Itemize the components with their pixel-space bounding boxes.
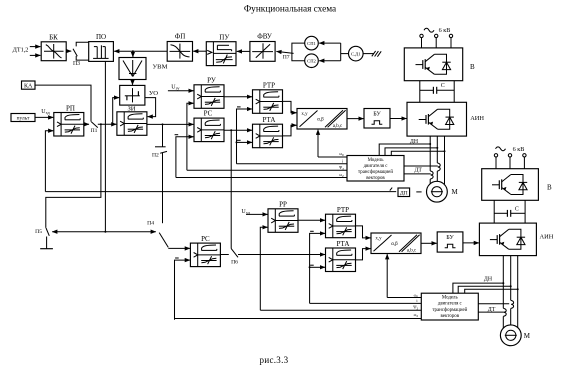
svg-text:УО: УО <box>149 90 158 97</box>
svg-text:М: М <box>524 332 531 340</box>
svg-text:ДТ: ДТ <box>488 307 496 313</box>
svg-text:Uзд: Uзд <box>41 109 50 115</box>
svg-text:ДТ1,2: ДТ1,2 <box>13 47 29 54</box>
svg-text:a,b,c: a,b,c <box>333 124 343 129</box>
svg-text:векторов: векторов <box>441 314 460 319</box>
svg-text:ДН: ДН <box>484 276 493 282</box>
svg-text:АИН: АИН <box>540 233 554 240</box>
svg-text:Функциональная схема: Функциональная схема <box>244 5 336 15</box>
svg-text:РС: РС <box>201 235 210 243</box>
svg-text:П6: П6 <box>231 259 238 265</box>
svg-text:6 кВ: 6 кВ <box>439 27 451 34</box>
svg-text:СП2: СП2 <box>307 59 316 64</box>
svg-text:x,y: x,y <box>375 237 382 242</box>
svg-text:ДП: ДП <box>400 191 408 197</box>
svg-text:C: C <box>515 206 519 212</box>
svg-text:x,y: x,y <box>301 112 308 117</box>
svg-text:РТР: РТР <box>263 82 275 90</box>
svg-text:ФВУ: ФВУ <box>257 33 272 41</box>
svg-text:ПУ: ПУ <box>219 33 229 41</box>
svg-text:Uзу: Uзу <box>171 85 180 91</box>
svg-text:трансформацией: трансформацией <box>432 308 467 313</box>
svg-text:П1: П1 <box>91 128 98 134</box>
svg-text:КА: КА <box>24 83 33 89</box>
svg-text:П2: П2 <box>152 152 159 158</box>
svg-text:РС: РС <box>204 110 213 118</box>
svg-text:ПО: ПО <box>96 33 106 41</box>
svg-text:РТА: РТА <box>337 240 350 248</box>
svg-text:В: В <box>470 63 475 71</box>
svg-text:РТА: РТА <box>263 116 276 124</box>
svg-text:П5: П5 <box>35 229 42 235</box>
svg-text:векторов: векторов <box>366 176 385 181</box>
svg-text:М: М <box>452 188 459 196</box>
svg-text:БК: БК <box>49 33 58 41</box>
svg-text:C: C <box>441 83 445 89</box>
svg-text:П3: П3 <box>73 61 80 67</box>
svg-text:БУ: БУ <box>446 235 454 241</box>
svg-text:СП1: СП1 <box>307 41 316 46</box>
svg-text:двигателя с: двигателя с <box>438 302 463 307</box>
svg-text:ДТ: ДТ <box>414 168 422 174</box>
svg-text:УВМ: УВМ <box>153 64 168 71</box>
svg-text:α,β: α,β <box>317 118 324 123</box>
svg-text:6 кВ: 6 кВ <box>513 146 525 153</box>
svg-text:a,b,c: a,b,c <box>407 248 417 253</box>
svg-text:рис.3.3: рис.3.3 <box>260 355 289 365</box>
svg-text:Модель: Модель <box>368 158 385 163</box>
svg-text:пульт: пульт <box>17 116 30 122</box>
svg-text:БУ: БУ <box>373 112 381 118</box>
svg-text:РТР: РТР <box>337 206 349 214</box>
svg-text:трансформацией: трансформацией <box>358 170 393 175</box>
svg-text:РУ: РУ <box>207 77 216 85</box>
svg-text:α,β: α,β <box>391 242 398 247</box>
svg-text:АИН: АИН <box>470 115 484 122</box>
svg-text:РР: РР <box>279 201 287 209</box>
svg-text:ФП: ФП <box>175 33 186 41</box>
svg-text:РП: РП <box>66 105 75 113</box>
svg-text:П4: П4 <box>147 221 154 227</box>
svg-text:Модель: Модель <box>442 296 459 301</box>
svg-text:В: В <box>547 184 552 192</box>
svg-text:П7: П7 <box>283 55 290 61</box>
svg-text:двигателя с: двигателя с <box>364 164 389 169</box>
